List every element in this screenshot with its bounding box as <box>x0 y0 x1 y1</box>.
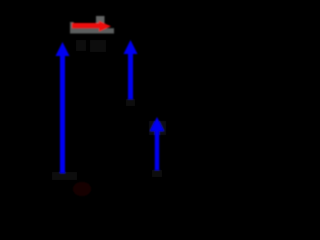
gray bar under red arrow <box>70 28 114 33</box>
gray block above red arrowhead <box>96 16 105 24</box>
faint blob under right arrow <box>152 170 162 177</box>
blue arrow right (up) <box>150 117 164 170</box>
faint dark red dot bottom-left <box>73 182 91 196</box>
faint marks below red arrow <box>76 40 86 51</box>
faint box around right arrowhead <box>149 121 166 135</box>
blue arrow middle (up) <box>124 40 138 99</box>
faint blob under left arrow <box>52 172 77 180</box>
faint blob under middle arrow <box>126 99 135 106</box>
blue arrow left (up) <box>56 42 70 173</box>
red force arrow <box>72 21 111 32</box>
gray tick at left end of red arrow <box>70 22 74 34</box>
